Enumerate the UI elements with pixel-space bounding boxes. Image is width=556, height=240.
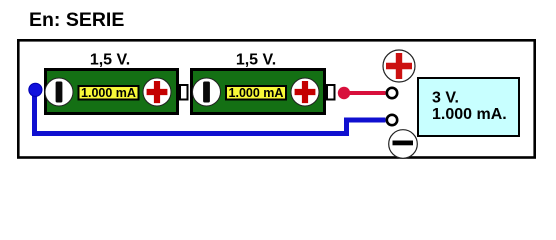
battery B1 value label 1.000 mA: [79, 86, 139, 100]
battery B1 nub terminal: [180, 85, 188, 100]
plus symbol circle: [383, 50, 415, 82]
battery B2 negative terminal circle: [193, 78, 221, 106]
minus symbol black bar: [393, 141, 414, 146]
battery B2 nub terminal: [327, 85, 335, 100]
svg-text:1,5 V.: 1,5 V.: [90, 52, 130, 69]
battery B2 value label 1.000 mA: [226, 86, 286, 100]
battery B2 positive terminal circle: [291, 78, 319, 106]
svg-text:En: SERIE: En: SERIE: [29, 9, 124, 31]
svg-text:1.000 mA.: 1.000 mA.: [432, 106, 507, 123]
crimson wire positive: [344, 91, 386, 95]
battery B1 negative bar: [56, 82, 63, 103]
svg-text:1.000 mA: 1.000 mA: [229, 86, 284, 100]
svg-text:3 V.: 3 V.: [432, 90, 459, 107]
battery B2 positive plus sign: [295, 81, 316, 103]
battery B1 negative terminal circle: [45, 78, 73, 106]
negative output terminal (open circle): [387, 115, 397, 125]
node crimson junction dot: [338, 87, 350, 99]
plus symbol red cross: [386, 53, 412, 79]
output info box 3V 1.000mA: [418, 78, 519, 136]
svg-text:1,5 V.: 1,5 V.: [236, 52, 276, 69]
battery B2 negative bar: [203, 82, 210, 103]
node blue junction dot: [29, 83, 42, 96]
blue wire negative path: [35, 90, 386, 134]
positive output terminal (open circle): [387, 88, 397, 98]
minus symbol circle: [389, 130, 418, 159]
battery B1 positive plus sign: [147, 81, 168, 103]
battery B1 body: [46, 70, 178, 114]
svg-text:1.000 mA: 1.000 mA: [81, 86, 136, 100]
battery B1 positive terminal circle: [143, 78, 171, 106]
outer enclosure box: [18, 40, 534, 157]
battery B2 body: [192, 70, 325, 114]
